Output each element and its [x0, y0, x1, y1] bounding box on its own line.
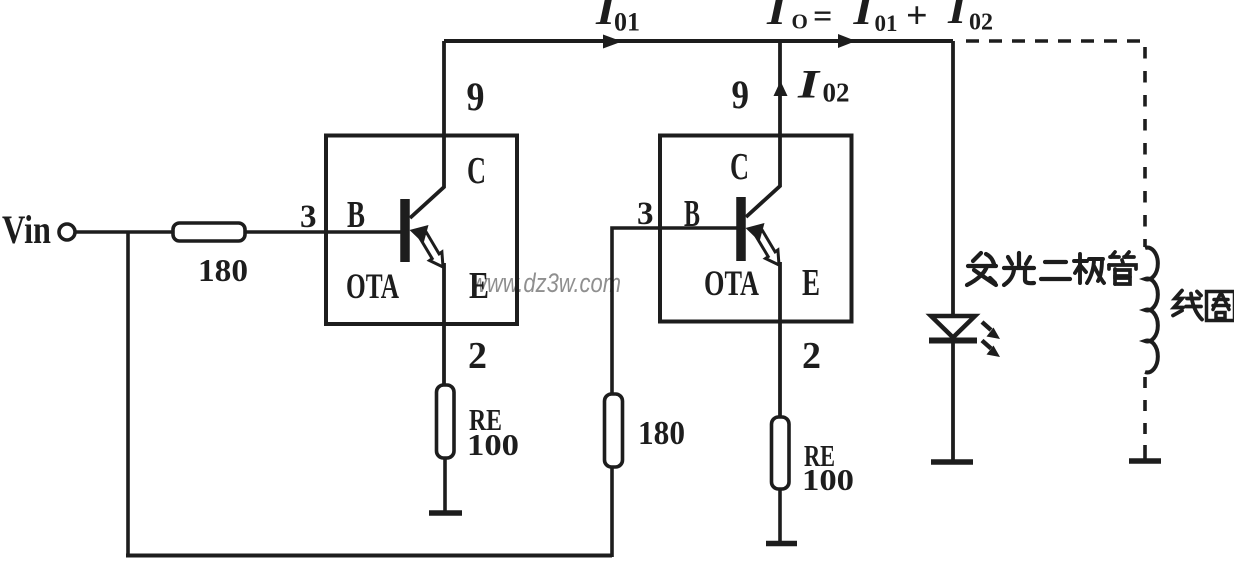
LED D1 triangle [931, 316, 975, 338]
transistor Q2 collector wire up to top rail [746, 41, 780, 217]
svg-text:B: B [684, 193, 700, 235]
terminal bar RE1 [429, 510, 462, 516]
transistor Q1 inner filled arrow [410, 225, 429, 244]
svg-text:02: 02 [969, 10, 993, 36]
svg-text:Vin: Vin [2, 207, 51, 252]
svg-text:3: 3 [300, 199, 317, 235]
svg-text:=: = [813, 0, 832, 35]
transistor Q2 emitter hollow arrow shaft [756, 231, 780, 265]
LED D1 light arrow 1 [982, 322, 1000, 339]
svg-text:01: 01 [614, 8, 640, 37]
label LED chinese ji [1074, 254, 1104, 283]
op-amp OTA U2 box [660, 136, 852, 322]
svg-text:C: C [467, 150, 486, 192]
svg-text:B: B [347, 194, 365, 236]
svg-text:9: 9 [732, 72, 750, 117]
terminal bar LED [931, 459, 973, 465]
resistor 180 vertical body [605, 394, 623, 467]
op-amp OTA U1 box [326, 136, 517, 325]
svg-text:I: I [947, 0, 968, 32]
svg-text:2: 2 [802, 335, 821, 377]
arrow I02 on Q2 collector [774, 81, 788, 96]
label LED chinese er [1041, 262, 1070, 279]
wire coil bottom stub [1143, 445, 1147, 459]
wire RE2 lead [778, 489, 782, 542]
svg-text:I: I [766, 0, 788, 33]
svg-text:OTA: OTA [346, 266, 399, 306]
transistor Q1 base bar [400, 199, 410, 262]
wire right riser to pin 3 of U2 [612, 228, 738, 557]
svg-text:E: E [802, 262, 820, 304]
label coil chinese xian [1173, 291, 1202, 320]
wire LED branch from top rail [951, 41, 955, 317]
label LED chinese guang [1004, 253, 1034, 285]
svg-text:C: C [730, 146, 749, 188]
svg-text:3: 3 [637, 196, 654, 232]
resistor RE1 body [437, 385, 455, 458]
terminal Vin [59, 224, 75, 240]
svg-text:180: 180 [198, 252, 248, 288]
label coil chinese quan [1207, 292, 1234, 321]
transistor Q1 emitter hollow arrow shaft [420, 233, 444, 267]
wire Q1 emitter down to RE [442, 263, 446, 386]
wire RE1 lead [443, 458, 447, 511]
transistor Q2 inner filled arrow [746, 223, 765, 242]
LED D1 cathode bar [929, 338, 977, 344]
svg-text:E: E [469, 265, 489, 307]
svg-text:9: 9 [467, 74, 485, 119]
svg-text:100: 100 [467, 427, 519, 462]
arrow I01 on top rail [603, 35, 622, 49]
transistor Q1 collector wire up to top rail [410, 41, 444, 218]
wire left return riser [126, 232, 130, 556]
svg-text:I: I [852, 0, 874, 33]
LED D1 light arrow 2 [982, 341, 1000, 358]
inductor coil L1 [1145, 248, 1158, 373]
wire dashed top right [966, 39, 1145, 43]
svg-text:2: 2 [468, 335, 487, 377]
svg-text:01: 01 [875, 11, 898, 36]
svg-text:180: 180 [638, 415, 685, 452]
wire top rail [444, 39, 953, 43]
wire Q2 emitter down to RE2 [778, 262, 782, 418]
wire Vin to base bar of U1 [76, 230, 402, 234]
label LED chinese fa [967, 253, 996, 285]
wire bottom return [126, 554, 612, 558]
label LED chinese guan [1109, 252, 1136, 284]
svg-text:www.dz3w.com: www.dz3w.com [471, 268, 621, 298]
svg-text:02: 02 [823, 78, 850, 108]
svg-text:O: O [792, 10, 808, 34]
terminal bar coil [1129, 458, 1161, 464]
wire dashed right side lower [1143, 377, 1147, 445]
wire dashed right side upper [1143, 47, 1147, 247]
wire LED cathode down [951, 343, 955, 460]
arrow Io on top rail [838, 34, 856, 48]
svg-text:100: 100 [802, 462, 854, 497]
transistor Q2 base bar [736, 197, 746, 261]
svg-text:+: + [906, 0, 928, 37]
resistor 180 horizontal body [173, 223, 245, 241]
resistor RE2 body [772, 417, 790, 489]
svg-text:I: I [797, 62, 821, 107]
terminal bar RE2 [766, 541, 797, 547]
svg-text:OTA: OTA [704, 263, 759, 303]
